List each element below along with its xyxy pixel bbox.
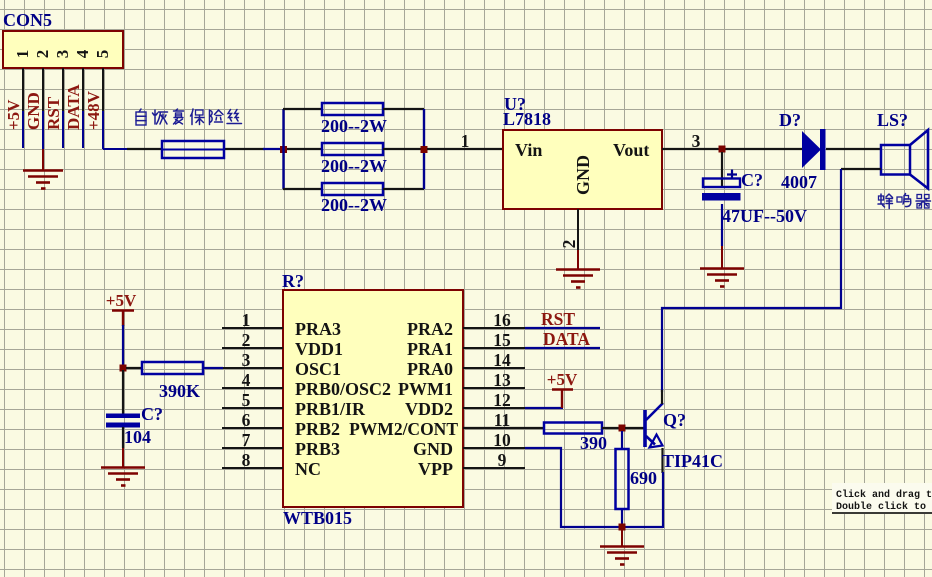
恢 xyxy=(153,110,168,124)
capacitor C? positive plate (hollow) xyxy=(703,179,740,188)
U? body xyxy=(503,130,662,209)
left pin numbers xyxy=(242,310,251,470)
丝 xyxy=(227,110,242,124)
right pin names xyxy=(349,319,458,479)
ground symbol below C? xyxy=(700,269,744,287)
label 自恢复保险丝 (drawn glyphs) xyxy=(136,109,242,125)
fuse F1 body 自恢复保险丝 xyxy=(162,141,224,158)
svg-text:Vin: Vin xyxy=(515,140,542,160)
svg-text:GND: GND xyxy=(413,439,453,459)
svg-text:+5V: +5V xyxy=(106,291,137,310)
hint box background xyxy=(832,483,932,513)
svg-text:NC: NC xyxy=(295,459,321,479)
svg-text:DATA: DATA xyxy=(64,84,83,130)
resistor 690 body (vertical) xyxy=(616,449,629,509)
svg-text:LS?: LS? xyxy=(877,110,908,130)
svg-text:PRB3: PRB3 xyxy=(295,439,340,459)
svg-text:4007: 4007 xyxy=(781,172,817,192)
ground stem below 104 xyxy=(122,448,124,467)
ground stem below U? xyxy=(577,250,579,269)
resistor 390 body xyxy=(544,423,602,434)
buzzer bottom pin xyxy=(841,168,881,170)
svg-text:Double click to: Double click to xyxy=(836,501,926,513)
svg-text:1: 1 xyxy=(461,131,470,151)
resistor R 200--2W (middle) xyxy=(322,143,383,155)
svg-text:+48V: +48V xyxy=(84,90,103,130)
wire cap 104 to ground xyxy=(122,427,124,448)
wire DATA from pin15 xyxy=(525,347,600,349)
wire RST from pin16 xyxy=(525,327,600,329)
svg-text:15: 15 xyxy=(493,330,511,350)
器 xyxy=(916,195,931,209)
svg-text:5: 5 xyxy=(93,50,112,59)
wire 390K to OSC1 pin xyxy=(203,367,223,369)
CON5 pin 4 lead xyxy=(82,68,84,111)
transistor Q? collector diagonal xyxy=(646,403,663,420)
svg-text:PWM2/CONT: PWM2/CONT xyxy=(349,419,458,439)
wire pin2 net GND xyxy=(42,111,44,149)
svg-text:PRA3: PRA3 xyxy=(295,319,341,339)
svg-text:+5V: +5V xyxy=(547,370,578,389)
svg-text:VDD2: VDD2 xyxy=(405,399,453,419)
svg-text:PRA0: PRA0 xyxy=(407,359,453,379)
diode D? triangle xyxy=(802,131,821,168)
capacitor C? 104 top plate xyxy=(106,414,140,419)
svg-text:200--2W: 200--2W xyxy=(321,195,387,215)
ground symbol below U? xyxy=(556,270,600,288)
ground stem below CON5 pin2 xyxy=(42,149,44,170)
junction D xyxy=(120,365,127,372)
svg-text:VPP: VPP xyxy=(418,459,453,479)
transistor Q? base bar xyxy=(643,410,647,447)
svg-text:Q?: Q? xyxy=(663,410,686,430)
ground symbol below 104 xyxy=(101,468,145,486)
svg-text:2: 2 xyxy=(559,240,579,249)
svg-text:2: 2 xyxy=(242,330,251,350)
svg-text:16: 16 xyxy=(493,310,511,330)
svg-text:8: 8 xyxy=(242,450,251,470)
svg-text:7: 7 xyxy=(242,430,251,450)
wire to junction A (navy) xyxy=(263,148,284,150)
CON5 pin 3 lead xyxy=(62,68,64,111)
险 xyxy=(210,110,224,125)
svg-text:3: 3 xyxy=(242,350,251,370)
svg-text:6: 6 xyxy=(242,410,251,430)
left pin names xyxy=(295,319,391,479)
svg-text:C?: C? xyxy=(141,404,163,424)
wire 690 bottom to junction F xyxy=(621,509,623,528)
junction F (emitter/ground node) xyxy=(619,524,626,531)
wire pin1 net +5V xyxy=(22,111,24,148)
wire junction B to U1 Vin xyxy=(427,148,504,150)
MCU body xyxy=(283,290,463,507)
branch wire top-left xyxy=(283,108,322,110)
svg-text:Click and drag t: Click and drag t xyxy=(836,489,932,501)
svg-text:D?: D? xyxy=(779,110,801,130)
connector CON5 body xyxy=(3,31,123,68)
svg-text:C?: C? xyxy=(741,170,763,190)
branch wire bot-left xyxy=(283,188,322,190)
CON5 pin 5 lead xyxy=(102,68,104,111)
label 蜂鸣器 (drawn glyphs) xyxy=(878,194,931,209)
capacitor C? negative plate (solid) xyxy=(702,193,741,201)
resistor 390K body xyxy=(142,362,203,374)
svg-text:GND: GND xyxy=(573,155,593,195)
branch wire top-right xyxy=(383,108,424,110)
resistor R 200--2W (bottom) xyxy=(322,183,383,195)
自 xyxy=(136,109,146,125)
svg-text:+5V: +5V xyxy=(4,99,23,130)
power +5V near pin12: bar and stem xyxy=(552,390,573,409)
buzzer LS? body xyxy=(881,145,910,175)
svg-text:PRA1: PRA1 xyxy=(407,339,453,359)
resistor R 200--2W (top) xyxy=(322,103,383,115)
wire 390 to junction E xyxy=(602,427,622,429)
svg-text:1: 1 xyxy=(242,310,251,330)
wire +5V down to junction D xyxy=(122,325,124,370)
capacitor C? 104 bottom plate xyxy=(106,423,140,428)
wire junction D down to cap 104 xyxy=(122,370,124,414)
wire junction D to resistor 390K xyxy=(126,367,143,369)
transistor Q? emitter diagonal xyxy=(646,436,655,445)
svg-text:CON5: CON5 xyxy=(3,10,52,30)
fuse element line xyxy=(162,149,224,151)
CON5 pin 2 lead xyxy=(42,68,44,111)
ground stem below C? xyxy=(721,246,723,268)
vertical branch bus left xyxy=(282,109,284,189)
svg-text:2: 2 xyxy=(33,50,52,59)
svg-text:PRA2: PRA2 xyxy=(407,319,453,339)
junction C (cap branch) xyxy=(719,146,726,153)
wire cap to ground xyxy=(721,204,723,246)
svg-text:TIP41C: TIP41C xyxy=(662,451,723,471)
junction E (base node) xyxy=(619,425,626,432)
buzzer LS? cone xyxy=(910,130,928,189)
wire junction C down to cap xyxy=(721,152,723,187)
svg-text:PRB0/OSC2: PRB0/OSC2 xyxy=(295,379,391,399)
svg-text:47UF--50V: 47UF--50V xyxy=(722,206,807,226)
vertical branch bus right xyxy=(423,109,425,189)
svg-text:13: 13 xyxy=(493,370,511,390)
wire emitter down to junction F rail xyxy=(662,472,664,528)
diode D? cathode bar xyxy=(820,129,826,170)
svg-text:14: 14 xyxy=(493,350,511,370)
branch wire mid-right xyxy=(383,148,421,150)
鸣 xyxy=(897,194,911,207)
svg-text:RST: RST xyxy=(44,96,63,130)
svg-text:RST: RST xyxy=(541,309,575,329)
svg-text:3: 3 xyxy=(53,50,72,59)
transistor Q? emitter pin xyxy=(661,448,663,473)
base pin of Q? xyxy=(625,427,644,429)
wire pin10 run: right, down, across to emitter xyxy=(525,448,663,527)
wire diode to speaker xyxy=(826,148,882,150)
svg-text:L7818: L7818 xyxy=(503,109,551,129)
wire junction E to 690 top xyxy=(621,431,623,450)
svg-text:10: 10 xyxy=(493,430,511,450)
wire U? Vout to diode xyxy=(662,148,803,150)
svg-text:Vout: Vout xyxy=(613,140,649,160)
svg-text:4: 4 xyxy=(73,49,92,58)
wire pin5 net +48V xyxy=(102,111,104,149)
wire buzzer to collector (down) xyxy=(662,169,841,392)
wire through fuse (black part) xyxy=(127,148,163,150)
left pin leads 1-8 xyxy=(222,328,283,468)
wire pin11 to resistor 390 xyxy=(463,427,545,429)
svg-text:200--2W: 200--2W xyxy=(321,116,387,136)
wire pin4 net DATA xyxy=(82,111,84,148)
svg-text:WTB015: WTB015 xyxy=(283,508,352,528)
svg-text:9: 9 xyxy=(498,450,507,470)
CON5 pin 1 lead xyxy=(22,68,24,111)
svg-text:GND: GND xyxy=(24,92,43,130)
svg-text:DATA: DATA xyxy=(543,329,590,349)
plus sign of C? xyxy=(727,170,737,180)
svg-text:PRB2: PRB2 xyxy=(295,419,340,439)
U? pin 2 lead xyxy=(577,209,579,250)
复 xyxy=(174,109,184,124)
svg-text:PRB1/IR: PRB1/IR xyxy=(295,399,366,419)
svg-text:200--2W: 200--2W xyxy=(321,156,387,176)
svg-text:390: 390 xyxy=(580,433,607,453)
svg-text:PWM1: PWM1 xyxy=(398,379,453,399)
transistor Q? emitter arrow (hollow) xyxy=(650,435,663,448)
right pin leads 16-9 xyxy=(463,328,525,468)
svg-text:104: 104 xyxy=(124,427,151,447)
wire pin3 net RST xyxy=(62,111,64,148)
svg-text:4: 4 xyxy=(242,370,251,390)
junction B xyxy=(421,146,428,153)
ground symbol below CON5 xyxy=(23,171,63,189)
svg-text:390K: 390K xyxy=(159,381,200,401)
svg-text:VDD1: VDD1 xyxy=(295,339,343,359)
branch wire mid-left xyxy=(287,148,322,150)
svg-text:3: 3 xyxy=(692,131,701,151)
ground symbol below junction F xyxy=(600,547,644,565)
svg-text:1: 1 xyxy=(13,50,32,59)
wire from CON5 pin5 to fuse (navy part) xyxy=(103,148,128,150)
hint box underline xyxy=(832,512,932,514)
power +5V bar and stem (left) xyxy=(112,311,134,327)
wire fuse to junction (black) xyxy=(223,148,264,150)
保 xyxy=(191,109,205,125)
svg-text:12: 12 xyxy=(493,390,511,410)
right pin numbers xyxy=(493,310,511,470)
ground stem below junction F xyxy=(621,529,623,546)
svg-text:5: 5 xyxy=(242,390,251,410)
svg-text:OSC1: OSC1 xyxy=(295,359,341,379)
transistor Q? collector pin xyxy=(661,390,663,404)
svg-text:R?: R? xyxy=(282,271,304,291)
svg-text:690: 690 xyxy=(630,468,657,488)
蜂 xyxy=(878,194,893,209)
wire pin12 to +5V xyxy=(525,407,563,409)
junction A xyxy=(280,146,287,153)
branch wire bot-right xyxy=(383,188,424,190)
